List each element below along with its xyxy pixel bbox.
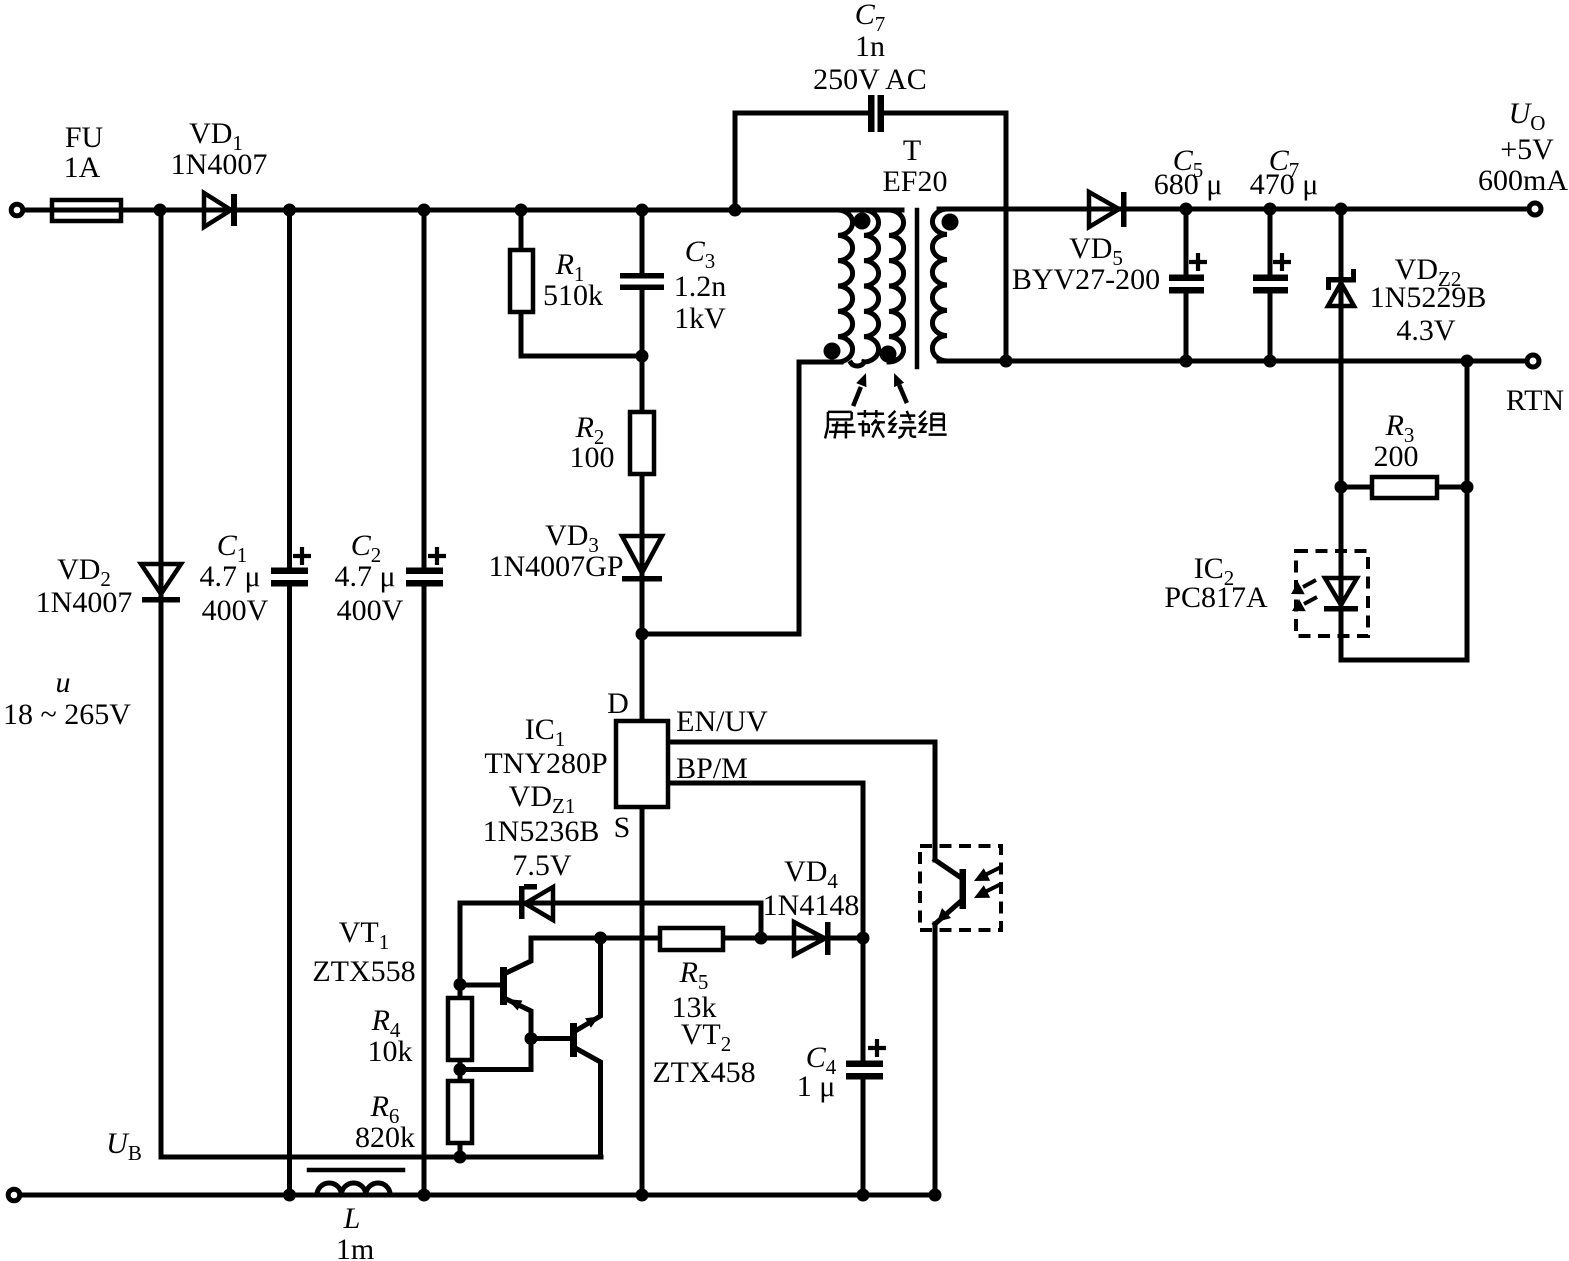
svg-text:1m: 1m xyxy=(336,1233,374,1261)
svg-text:200: 200 xyxy=(1374,440,1419,473)
svg-text:1N4007: 1N4007 xyxy=(171,148,268,181)
svg-text:1N5229B: 1N5229B xyxy=(1370,281,1487,314)
svg-text:1N5236B: 1N5236B xyxy=(483,815,600,848)
svg-text:1A: 1A xyxy=(64,151,101,184)
svg-text:FU: FU xyxy=(65,121,104,154)
svg-text:EN/UV: EN/UV xyxy=(676,705,768,738)
svg-text:u: u xyxy=(56,666,71,699)
svg-text:EF20: EF20 xyxy=(882,165,947,198)
svg-text:1 μ: 1 μ xyxy=(797,1070,836,1103)
svg-text:1N4148: 1N4148 xyxy=(763,889,860,922)
svg-text:600mA: 600mA xyxy=(1478,164,1568,197)
svg-text:510k: 510k xyxy=(543,279,603,312)
svg-text:BP/M: BP/M xyxy=(676,752,748,785)
svg-text:4.7 μ: 4.7 μ xyxy=(334,560,395,593)
svg-text:ZTX458: ZTX458 xyxy=(652,1056,755,1089)
svg-text:100: 100 xyxy=(570,441,615,474)
svg-text:18 ~ 265V: 18 ~ 265V xyxy=(3,698,131,731)
svg-text:BYV27-200: BYV27-200 xyxy=(1012,263,1160,296)
svg-text:D: D xyxy=(607,687,629,720)
svg-text:400V: 400V xyxy=(202,594,269,627)
svg-text:250V AC: 250V AC xyxy=(813,63,927,96)
svg-text:10k: 10k xyxy=(368,1035,413,1068)
svg-text:ZTX558: ZTX558 xyxy=(312,955,415,988)
svg-text:1N4007GP: 1N4007GP xyxy=(488,550,623,583)
svg-text:L: L xyxy=(343,1202,361,1235)
svg-text:+5V: +5V xyxy=(1500,133,1554,166)
svg-text:680 μ: 680 μ xyxy=(1154,168,1223,201)
svg-text:820k: 820k xyxy=(355,1121,415,1154)
svg-text:400V: 400V xyxy=(337,594,404,627)
svg-text:RTN: RTN xyxy=(1506,384,1564,417)
svg-text:1kV: 1kV xyxy=(674,302,726,335)
svg-text:1N4007: 1N4007 xyxy=(36,586,133,619)
svg-text:S: S xyxy=(614,811,631,844)
svg-text:4.3V: 4.3V xyxy=(1396,314,1456,347)
svg-text:7.5V: 7.5V xyxy=(512,849,572,882)
svg-text:TNY280P: TNY280P xyxy=(484,747,607,780)
svg-text:4.7 μ: 4.7 μ xyxy=(199,560,260,593)
svg-text:1n: 1n xyxy=(855,30,885,63)
svg-text:T: T xyxy=(903,134,921,167)
svg-text:470 μ: 470 μ xyxy=(1250,168,1319,201)
svg-text:PC817A: PC817A xyxy=(1164,581,1268,614)
svg-text:1.2n: 1.2n xyxy=(674,270,727,303)
